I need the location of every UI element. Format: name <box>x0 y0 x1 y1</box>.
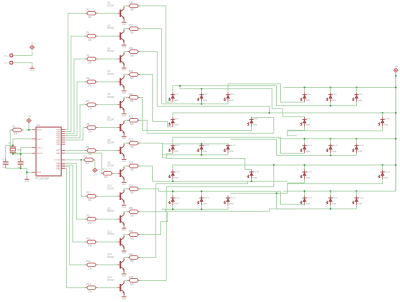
LED26 <box>352 196 364 206</box>
svg-text:R20: R20 <box>129 94 134 96</box>
svg-text:Q11: Q11 <box>107 208 112 210</box>
wire base resistor to Q10 <box>98 195 118 197</box>
transistor Q14 BC547 <box>107 277 124 295</box>
wire LED22 bottom stub <box>201 205 203 209</box>
ground at Q11 emitter <box>122 226 127 232</box>
svg-text:R10: R10 <box>86 193 91 195</box>
capacitor C1 15pF <box>2 158 9 169</box>
junction below +5V <box>395 75 397 77</box>
svg-text:R21: R21 <box>129 117 134 119</box>
svg-text:5MM: 5MM <box>203 203 208 205</box>
wire LED24 top stub <box>304 191 306 195</box>
svg-text:4MHz: 4MHz <box>17 149 22 151</box>
LED9 <box>300 117 311 127</box>
svg-text:+5V: +5V <box>31 43 35 45</box>
wire base resistor to Q6 <box>98 104 118 106</box>
resistor R1 10k MCLR pull-up <box>11 126 23 135</box>
transistor Q12 BC547 <box>107 231 124 249</box>
wire feeder tap to LED18 top <box>382 165 384 170</box>
junction LED25 bottom <box>330 208 332 210</box>
svg-text:Q14: Q14 <box>107 277 112 279</box>
junction R1/VDD <box>28 129 30 131</box>
wire Q14 output to row4 feeder <box>140 165 274 280</box>
wire feeder to LED5 top <box>330 87 332 92</box>
svg-text:GND: GND <box>122 184 127 186</box>
wire IC pin to base resistor row 4 <box>65 59 85 134</box>
svg-text:5MM: 5MM <box>358 203 363 205</box>
wire base resistor to Q7 <box>98 127 118 129</box>
wire row1 +5V feeder <box>284 86 396 88</box>
LED10 <box>378 117 390 127</box>
ground at Q5 emitter <box>122 89 127 95</box>
LED7 <box>169 117 180 127</box>
resistor R20 560 collector row 6 <box>128 94 141 103</box>
svg-text:GND: GND <box>122 207 127 209</box>
LED19 <box>300 170 312 180</box>
capacitor C2 15pF <box>17 158 24 169</box>
junction row4 feeder tap <box>382 164 384 166</box>
resistor R10 10k base row 10 <box>85 193 98 202</box>
svg-text:LED4: LED4 <box>306 94 312 96</box>
svg-text:R12: R12 <box>86 238 91 240</box>
wire LED12 top stub <box>304 139 306 144</box>
svg-text:GND: GND <box>122 161 127 163</box>
wire LED23 bottom stub <box>227 205 229 209</box>
junction LED10 bottom <box>201 154 203 156</box>
wire Q8 output hook to LED9 bottom <box>140 143 173 158</box>
resistor R4 10k base row 3 <box>85 32 98 41</box>
svg-text:5MM: 5MM <box>332 151 337 153</box>
LED16 <box>352 143 364 153</box>
svg-text:MCLR: MCLR <box>37 153 43 155</box>
wire IC pin to base resistor row 2 <box>65 13 85 129</box>
junction feeder3 at +5V line <box>395 138 397 140</box>
wire row5 second line to right bottom rail <box>230 193 356 209</box>
resistor R28 560 collector row 14 <box>128 277 141 286</box>
resistor R17 560 collector row 3 <box>128 25 141 34</box>
wire base resistor to Q11 <box>98 218 118 220</box>
wire Q13 collector to resistor <box>124 257 128 260</box>
svg-text:R18: R18 <box>129 48 134 50</box>
svg-text:R11: R11 <box>86 215 91 217</box>
wire LED2 bottom stub <box>201 102 203 104</box>
wire LED16 bottom stub <box>251 179 253 181</box>
svg-text:5MM: 5MM <box>174 151 179 153</box>
junction LED4 top on feeder1 <box>304 87 306 89</box>
junction LED15 bottom <box>172 181 174 183</box>
svg-text:R13: R13 <box>86 261 91 263</box>
ground at Q4 emitter <box>122 66 127 72</box>
svg-text:5MM: 5MM <box>306 203 311 205</box>
LED20 <box>378 170 390 180</box>
wire LED9 top line to LED12 bottom <box>173 137 305 153</box>
ground at Q14 emitter <box>122 295 127 301</box>
svg-text:R23: R23 <box>129 162 134 164</box>
junction feeder1 tap LED6 <box>356 87 358 89</box>
svg-text:PIC16F628P: PIC16F628P <box>35 178 49 181</box>
svg-text:5MM: 5MM <box>174 177 179 179</box>
junction C2 ground <box>20 168 22 170</box>
wire Q5 output to LED5 bottom <box>140 75 173 127</box>
wire LED13 bottom stub <box>330 153 332 155</box>
wire IC pin to base resistor row 6 <box>65 105 85 138</box>
svg-text:Q12: Q12 <box>107 231 112 233</box>
transistor Q4 BC547 <box>107 48 124 66</box>
wire base resistor to Q12 <box>98 241 118 243</box>
svg-text:LED18: LED18 <box>253 171 260 173</box>
svg-text:5MM: 5MM <box>332 100 337 102</box>
wire base resistor to Q8 <box>98 149 118 151</box>
svg-text:Q10: Q10 <box>107 186 112 188</box>
svg-text:R27: R27 <box>129 254 134 256</box>
wire Q12 collector to resistor <box>124 234 128 237</box>
svg-text:X1-2: X1-2 <box>4 63 9 65</box>
wire row3 c2 c3 tops rail <box>162 143 228 145</box>
wire Q3 output to row1 bottom rail <box>140 29 228 104</box>
resistor R13 10k base row 9 <box>101 170 114 179</box>
resistor R27 560 collector row 13 <box>128 254 141 263</box>
wire OSC2 to C2 <box>21 148 32 159</box>
svg-text:R26: R26 <box>129 231 134 233</box>
transistor Q2 BC547 <box>107 3 124 21</box>
wire Q6 output to LED6 bottom <box>140 97 252 130</box>
wire Q11 collector to resistor <box>124 211 128 214</box>
svg-text:R13: R13 <box>103 170 108 172</box>
junction feeder5 tap <box>330 190 332 192</box>
transistor Q9 BC547 <box>107 163 124 181</box>
junction crystal/OSC1/C1 <box>12 145 14 147</box>
resistor R14 10k base row 14 <box>85 284 98 293</box>
junction RA4 net <box>80 159 82 161</box>
resistor R18 560 collector row 4 <box>128 48 141 57</box>
wire caps to ground rail <box>6 167 27 169</box>
ground at Q13 emitter <box>122 272 127 278</box>
svg-text:GND: GND <box>122 92 127 94</box>
svg-text:GND: GND <box>122 24 127 26</box>
wire row3 second line to right bottom rail <box>230 139 356 155</box>
wire Q4 output to row2 feeder <box>140 52 270 113</box>
wire ground rail join <box>26 168 28 172</box>
wire Q8 collector to resistor <box>124 142 128 145</box>
LED2 <box>197 92 208 102</box>
svg-text:+5V: +5V <box>27 116 31 118</box>
svg-text:LED9: LED9 <box>306 119 312 121</box>
transistor Q11 BC547 <box>107 208 124 226</box>
wire row3 bottom rail <box>162 154 228 156</box>
svg-text:GND: GND <box>25 181 30 183</box>
junction crystal bottom <box>12 153 14 155</box>
svg-text:LED2: LED2 <box>203 94 209 96</box>
resistor R6 10k base row 5 <box>85 78 98 87</box>
svg-text:LED3: LED3 <box>229 94 235 96</box>
svg-text:5MM: 5MM <box>306 177 311 179</box>
wire IC pin down to base resistor row 13 <box>65 167 85 265</box>
+5V supply top right <box>394 66 399 73</box>
svg-text:LED12: LED12 <box>203 145 210 147</box>
svg-text:+5V: +5V <box>93 175 97 177</box>
wire Q9 collector to resistor <box>124 165 128 168</box>
svg-text:BC547: BC547 <box>107 257 115 259</box>
wire Q10 output row5 tops line to LED24 bottom <box>140 189 305 206</box>
svg-text:LED24: LED24 <box>306 197 313 199</box>
wire LED21 bottom stub <box>172 205 174 209</box>
resistor R7 10k base row 6 <box>85 101 98 110</box>
wire feeder to LED26 top <box>356 191 358 195</box>
resistor R23 560 collector row 9 <box>128 162 141 171</box>
op-amp/microcontroller IC1 PIC16F628 <box>35 124 61 181</box>
svg-text:BC547: BC547 <box>107 120 115 122</box>
LED1 <box>169 92 180 102</box>
svg-text:BC547: BC547 <box>107 234 115 236</box>
wire base resistor to Q3 <box>98 35 118 37</box>
connector X1 pad 1 <box>4 54 13 57</box>
svg-text:R24: R24 <box>129 185 134 187</box>
wire Q2 collector to resistor <box>124 5 128 8</box>
wire LED18 bottom to row5 second line <box>277 179 383 193</box>
wire Q13 output to row4 rail <box>140 181 248 257</box>
svg-text:VDD: VDD <box>37 130 42 132</box>
LED4 <box>300 92 311 102</box>
wire row5 bottom rail <box>162 208 228 210</box>
svg-text:GND: GND <box>122 275 127 277</box>
wire LED6 right bottom stub <box>356 102 358 106</box>
svg-text:LED7: LED7 <box>174 119 180 121</box>
wire +5V main vertical <box>395 73 397 191</box>
svg-text:BC547: BC547 <box>107 143 115 145</box>
svg-text:5MM: 5MM <box>229 203 234 205</box>
ground at Q7 emitter <box>122 135 127 141</box>
wire Q2 output to LED1 <box>140 6 173 102</box>
resistor R19 560 collector row 5 <box>128 71 141 80</box>
svg-text:LED22: LED22 <box>203 197 210 199</box>
svg-text:LED10: LED10 <box>384 119 391 121</box>
svg-text:LED11: LED11 <box>174 145 181 147</box>
junction LED16 bottom <box>251 181 253 183</box>
svg-text:GND: GND <box>122 47 127 49</box>
svg-text:5MM: 5MM <box>384 177 389 179</box>
wire R1 to +5V net <box>25 129 29 131</box>
wire row4 feeder rail <box>173 165 396 170</box>
wire LED17 bottom left <box>287 179 304 183</box>
wire branch to LED2 top <box>180 86 202 89</box>
svg-text:5MM: 5MM <box>306 125 311 127</box>
ground at Q6 emitter <box>122 112 127 118</box>
svg-text:TOCKI: TOCKI <box>54 160 61 162</box>
wire IC pin down to base resistor row 14 <box>65 169 85 288</box>
transistor Q10 BC547 <box>107 186 124 204</box>
wire OSC1 to crystal <box>13 139 32 146</box>
junction feeder3 tap <box>330 138 332 140</box>
junction feeder3 tap2 <box>356 138 358 140</box>
wire row2 feeder rail <box>173 113 396 117</box>
svg-text:BC547: BC547 <box>107 5 115 7</box>
svg-text:BC547: BC547 <box>107 188 115 190</box>
+5V supply symbol at connector <box>30 43 35 50</box>
svg-text:5MM: 5MM <box>229 151 234 153</box>
wire LED11 bottom stub <box>227 153 229 155</box>
svg-text:BC547: BC547 <box>107 74 115 76</box>
svg-text:BC547: BC547 <box>107 51 115 53</box>
wire base resistor to Q5 <box>98 81 118 83</box>
LED5 <box>326 92 337 102</box>
junction LED2 top <box>201 88 203 90</box>
junction LED12 top on feeder3 <box>304 138 306 140</box>
svg-text:LED1: LED1 <box>174 94 180 96</box>
wire base resistor to Q2 <box>98 12 118 14</box>
svg-text:GND: GND <box>122 253 127 255</box>
svg-text:LED26: LED26 <box>358 197 365 199</box>
svg-text:BC547: BC547 <box>107 28 115 30</box>
svg-text:OSC1: OSC1 <box>37 139 43 141</box>
wire base resistor to Q13 <box>98 264 118 266</box>
svg-text:LED20: LED20 <box>384 171 391 173</box>
junction LED22 bottom <box>201 209 203 211</box>
svg-text:5MM: 5MM <box>253 125 258 127</box>
IC1 left pin stubs <box>32 130 36 173</box>
ground at Q12 emitter <box>122 249 127 255</box>
svg-text:+5V: +5V <box>394 66 398 68</box>
LED15 <box>326 143 338 153</box>
wire feeder to LED13 top <box>330 139 332 144</box>
wire Q6 collector to resistor <box>124 96 128 99</box>
wire Q7 output to LED6 top <box>140 117 274 133</box>
junction VSS/ground <box>26 172 28 174</box>
resistor R16 560 collector row 2 <box>128 2 141 11</box>
wire row1 third line to LED7 top <box>202 89 305 117</box>
resistor R26 560 collector row 12 <box>128 231 141 240</box>
LED3 <box>224 92 235 102</box>
LED12 <box>197 143 209 153</box>
junction LED17 top on feeder4 <box>304 164 306 166</box>
svg-text:BC547: BC547 <box>107 97 115 99</box>
LED23 <box>224 196 236 206</box>
wire LED3 bottom stub <box>227 102 229 104</box>
svg-text:LED25: LED25 <box>332 197 339 199</box>
svg-text:GND: GND <box>122 115 127 117</box>
wire RA4 down to base resistor row 10 <box>81 160 85 196</box>
svg-text:VSS: VSS <box>37 172 42 174</box>
wire base resistor to Q4 <box>98 58 118 60</box>
wire row3 hook line to LED16 top <box>166 158 251 170</box>
junction LED5 right bottom <box>330 105 332 107</box>
junction feeder5 tap2 <box>356 190 358 192</box>
wire Q5 collector to resistor <box>124 74 128 77</box>
svg-text:5MM: 5MM <box>306 100 311 102</box>
junction feeder1 at +5V line <box>395 87 397 89</box>
wire LED17 top stub <box>304 165 306 170</box>
LED22 <box>197 196 209 206</box>
junction row2 feeder tap <box>382 112 384 114</box>
ground at connector <box>30 66 35 72</box>
LED13 <box>224 143 236 153</box>
junction LED2 branch <box>179 85 181 87</box>
svg-text:LED16: LED16 <box>358 145 365 147</box>
LED11 <box>169 143 181 153</box>
ground at Q10 emitter <box>122 203 127 209</box>
ground at Q2 emitter <box>122 20 127 26</box>
wire Q14 collector to resistor <box>124 279 128 282</box>
svg-text:R28: R28 <box>129 277 134 279</box>
resistor R5 10k base row 4 <box>85 55 98 64</box>
ground at Q3 emitter <box>122 43 127 49</box>
svg-text:BC547: BC547 <box>107 211 115 213</box>
svg-text:R16: R16 <box>129 2 134 4</box>
junction row2 feeder at +5V line <box>395 112 397 114</box>
crystal Q1 4MHz <box>8 143 22 154</box>
wire IC pin to base resistor row 5 <box>65 82 85 136</box>
svg-text:5MM: 5MM <box>174 100 179 102</box>
wire Q4 collector to resistor <box>124 51 128 54</box>
wire feeder tap to LED8 top <box>382 113 384 117</box>
wire LED21 top stub <box>172 191 174 195</box>
junction LED21 top <box>172 191 174 193</box>
wire LED10 bottom stub <box>201 153 203 155</box>
LED6 <box>352 92 363 102</box>
wire IC pin down to base resistor row 11 <box>65 163 85 219</box>
LED25 <box>326 196 338 206</box>
wire LED15 bottom stub <box>172 179 174 181</box>
junction C2/OSC2 <box>20 153 22 155</box>
LED14 <box>300 143 312 153</box>
wire R2 to +5V <box>94 160 96 168</box>
wire LED3 top line to LED4 bottom <box>228 84 305 102</box>
LED17 <box>169 170 181 180</box>
wire IC pin down to base resistor row 9 <box>65 153 102 173</box>
wire row3 +5V feeder <box>279 138 396 140</box>
resistor R11 10k base row 11 <box>85 215 98 224</box>
wire Q12 output staircase to row5 right bottom rail <box>140 209 297 235</box>
wire Q7 collector to resistor <box>124 119 128 122</box>
resistor R12 10k base row 12 <box>85 238 98 247</box>
junction LED21 bottom <box>172 209 174 211</box>
wire feeder to LED14 top <box>356 139 358 144</box>
wire IC pin direct to base resistor row 8 <box>65 149 85 151</box>
junction row4 feeder at +5V line <box>395 164 397 166</box>
svg-text:R22: R22 <box>129 140 134 142</box>
ground at Q9 emitter <box>122 180 127 186</box>
LED24 <box>300 196 312 206</box>
wire IC pin to base resistor row 3 <box>65 36 85 132</box>
svg-text:LED21: LED21 <box>174 197 181 199</box>
wire base resistor to Q9 <box>114 172 118 174</box>
resistor R24 560 collector row 10 <box>128 185 141 194</box>
svg-text:GND: GND <box>122 230 127 232</box>
svg-text:LED15: LED15 <box>332 145 339 147</box>
junction LED24 top on feeder5 <box>304 190 306 192</box>
wire crystal top to C1 <box>6 145 13 158</box>
svg-text:5MM: 5MM <box>203 100 208 102</box>
svg-text:R25: R25 <box>129 208 134 210</box>
wire Q3 collector to resistor <box>124 28 128 31</box>
wire IC pin to base resistor row 7 <box>65 128 85 140</box>
wire X1-1 to +5V <box>13 52 32 56</box>
junction LED10 top <box>201 143 203 145</box>
ground at Q8 emitter <box>122 157 127 163</box>
svg-text:LED6: LED6 <box>358 94 364 96</box>
svg-text:OSC2: OSC2 <box>37 147 43 149</box>
ground below IC <box>25 177 30 183</box>
svg-text:5MM: 5MM <box>384 125 389 127</box>
IC1 right pin stubs <box>61 130 65 169</box>
junction LED13 bottom <box>330 155 332 157</box>
transistor Q8 BC547 <box>107 140 124 158</box>
svg-text:GND: GND <box>122 298 127 300</box>
svg-text:BC547: BC547 <box>107 165 115 167</box>
wire feeder to LED25 top <box>330 191 332 195</box>
resistor R22 560 collector row 8 <box>128 140 141 149</box>
wire Q11 output corner <box>140 209 166 211</box>
svg-text:LED19: LED19 <box>306 171 313 173</box>
